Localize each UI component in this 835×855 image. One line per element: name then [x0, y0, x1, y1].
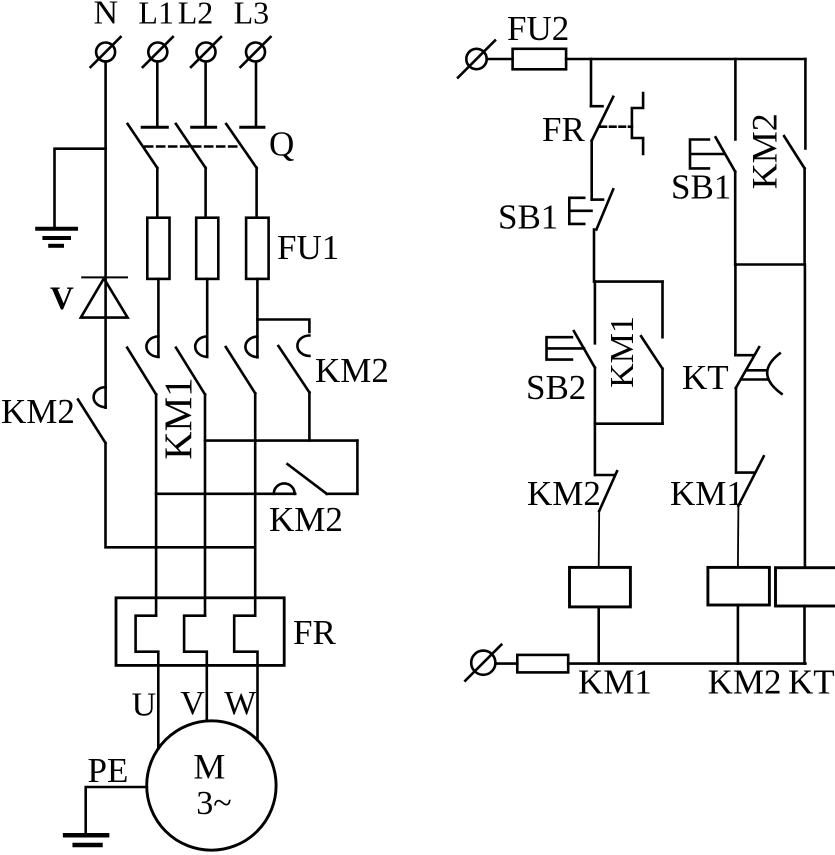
- wire KT coil to bottom line: [803, 606, 806, 664]
- svg-text:KM1: KM1: [604, 316, 641, 388]
- coil KM1: [570, 567, 631, 607]
- wire left rail top: [590, 59, 593, 106]
- terminal control bottom: [465, 645, 501, 681]
- contactor KM2 aux contact (self hold): [784, 136, 805, 168]
- wire Q to FU1 pole1: [156, 168, 159, 218]
- wire FR to motor V: [206, 665, 209, 721]
- pushbutton SB2 NO contact: [574, 331, 595, 368]
- svg-text:KM2: KM2: [708, 663, 782, 702]
- svg-text:SB1: SB1: [498, 198, 558, 237]
- svg-text:Q: Q: [269, 125, 294, 164]
- wire parallel branch bottom: [595, 422, 663, 425]
- svg-text:U: U: [132, 687, 157, 724]
- svg-text:KT: KT: [788, 663, 835, 702]
- switch Q linkage dashed line: [145, 145, 240, 148]
- wire branch join horizontal: [735, 263, 804, 266]
- wire parallel branch right lower: [661, 369, 664, 424]
- thermal relay FR heater 2: [184, 616, 207, 666]
- wire to KM1 coil: [598, 511, 601, 567]
- svg-text:KM1: KM1: [670, 474, 744, 513]
- wire PE to motor: [86, 787, 147, 835]
- terminal L3: [241, 37, 271, 67]
- wire middle rail KT to KM1 NC: [735, 388, 738, 473]
- wire phase3 below contact: [254, 393, 257, 615]
- thermal relay FR heater 1: [136, 616, 159, 666]
- svg-text:SB1: SB1: [671, 168, 731, 207]
- wire FR to motor W: [256, 665, 259, 740]
- contactor KM2 NC contact (horizontal): [156, 464, 357, 494]
- svg-text:L1: L1: [138, 0, 174, 30]
- fuse FU1 element 3: [246, 218, 269, 279]
- wire L1 terminal to Q: [156, 62, 159, 126]
- wire terminal to bottom fuse: [495, 662, 517, 665]
- fuse FU2: [513, 49, 567, 70]
- wire KM2 pole down: [308, 392, 311, 440]
- pushbutton SB2 actuator E: [547, 337, 585, 359]
- wire right rail below KM2: [803, 168, 806, 264]
- fuse FU1 element 2: [196, 218, 218, 279]
- wire KM2 coil to bottom line: [737, 605, 740, 664]
- contactor KM1 main contact 3: [226, 337, 258, 394]
- svg-text:KM1: KM1: [157, 377, 200, 459]
- fuse FU1 element 1: [147, 218, 169, 279]
- wire phase2 below contact: [204, 394, 207, 615]
- svg-text:KM2: KM2: [315, 351, 389, 390]
- ground symbol (left): [37, 229, 76, 246]
- svg-text:PE: PE: [88, 751, 129, 790]
- wire FU1 to KM1 contact 3: [256, 279, 259, 357]
- wire left rail SB1 to branch: [593, 230, 596, 282]
- relay FR linkage dashes: [601, 125, 632, 128]
- svg-text:L2: L2: [178, 0, 214, 30]
- motor M circle: [147, 721, 276, 850]
- wire parallel branch right upper: [661, 282, 664, 338]
- wire parallel branch top: [595, 280, 663, 283]
- wire left rail to SB2: [594, 282, 597, 344]
- svg-text:KM2: KM2: [269, 500, 343, 539]
- switch Q pole 1: [128, 124, 168, 168]
- svg-text:3~: 3~: [196, 785, 231, 822]
- contactor KM1 main contact 2: [176, 336, 207, 394]
- wire N terminal down: [104, 62, 107, 408]
- wire bridge right vertical: [356, 441, 359, 494]
- svg-text:KM2: KM2: [745, 113, 785, 189]
- ground symbol PE: [65, 835, 107, 845]
- pushbutton SB1 actuator E: [569, 198, 591, 224]
- diode V (surge suppressor): [81, 277, 128, 317]
- relay FR actuator symbol: [632, 93, 643, 154]
- thermal relay FR box: [116, 598, 284, 666]
- wire terminal to FU2: [487, 58, 513, 61]
- wire L3 branch to KM2 pole: [257, 320, 309, 333]
- terminal L1: [143, 37, 173, 67]
- svg-text:M: M: [193, 746, 225, 786]
- contactor KM1 aux contact (self hold): [641, 336, 662, 369]
- wire left rail SB2 to KM2 NC: [594, 368, 597, 475]
- contactor KM2 NC contact (control): [595, 471, 617, 511]
- svg-text:FU2: FU2: [507, 9, 569, 48]
- wire horizontal V-phase to bridge: [205, 439, 357, 442]
- terminal L2: [191, 37, 221, 67]
- contactor KM2 power contact: [278, 336, 309, 393]
- svg-text:FR: FR: [542, 110, 585, 149]
- fuse control bottom: [517, 655, 568, 673]
- svg-text:KM1: KM1: [578, 663, 652, 702]
- wire ground branch from N: [55, 149, 106, 228]
- svg-text:L3: L3: [234, 0, 270, 30]
- coil KM2: [708, 567, 770, 605]
- svg-text:V: V: [50, 281, 74, 317]
- pushbutton SB1 start actuator E: [690, 140, 723, 169]
- wire middle rail to KT: [734, 265, 737, 356]
- wire L3 terminal to Q: [255, 62, 258, 126]
- svg-text:KM2: KM2: [1, 392, 75, 431]
- wire right rail join to KT coil: [804, 265, 807, 568]
- wire FU1 to KM1 contact 2: [206, 279, 209, 357]
- svg-text:KM2: KM2: [527, 474, 601, 513]
- svg-text:SB2: SB2: [526, 368, 586, 407]
- thermal relay FR heater 3: [234, 616, 257, 666]
- coil KT: [776, 568, 835, 606]
- svg-text:KT: KT: [682, 358, 729, 397]
- wire to KM2 coil: [737, 506, 740, 568]
- wire control bottom line: [568, 662, 805, 665]
- wire left rail FR to SB1: [590, 141, 593, 200]
- svg-text:W: W: [224, 685, 257, 722]
- pushbutton SB1 NO contact (start): [716, 137, 736, 171]
- relay FR NC contact (control): [591, 97, 613, 141]
- wire FR to motor U: [157, 665, 160, 748]
- svg-text:FU1: FU1: [277, 228, 339, 267]
- contactor KM1 NC contact (interlock): [737, 456, 764, 506]
- svg-text:V: V: [180, 685, 205, 722]
- svg-text:FR: FR: [293, 613, 336, 652]
- wire KM1 coil to bottom line: [597, 607, 600, 664]
- wire FU1 to KM1 contact 1: [157, 279, 160, 357]
- wire Q to FU1 pole3: [255, 168, 258, 218]
- wire phase1 below contact: [155, 394, 158, 615]
- wire L2 terminal to Q: [204, 62, 207, 126]
- switch Q pole 3: [226, 124, 264, 168]
- pushbutton SB1 NC contact: [592, 189, 614, 229]
- timer KT NC delayed contact: [735, 347, 781, 394]
- wire right rail top: [804, 59, 807, 148]
- wire middle rail below SB1: [734, 172, 737, 265]
- wire control top line: [566, 58, 805, 61]
- wire middle rail top: [734, 59, 737, 140]
- svg-text:N: N: [94, 0, 119, 31]
- terminal control top: [458, 41, 495, 78]
- wire N line below KM2: [106, 443, 256, 547]
- contactor KM1 main contact 1: [127, 336, 158, 394]
- wire Q to FU1 pole2: [204, 168, 207, 218]
- terminal N: [91, 37, 121, 67]
- contactor KM2 contact on N line: [78, 387, 106, 443]
- switch Q pole 2: [176, 124, 216, 168]
